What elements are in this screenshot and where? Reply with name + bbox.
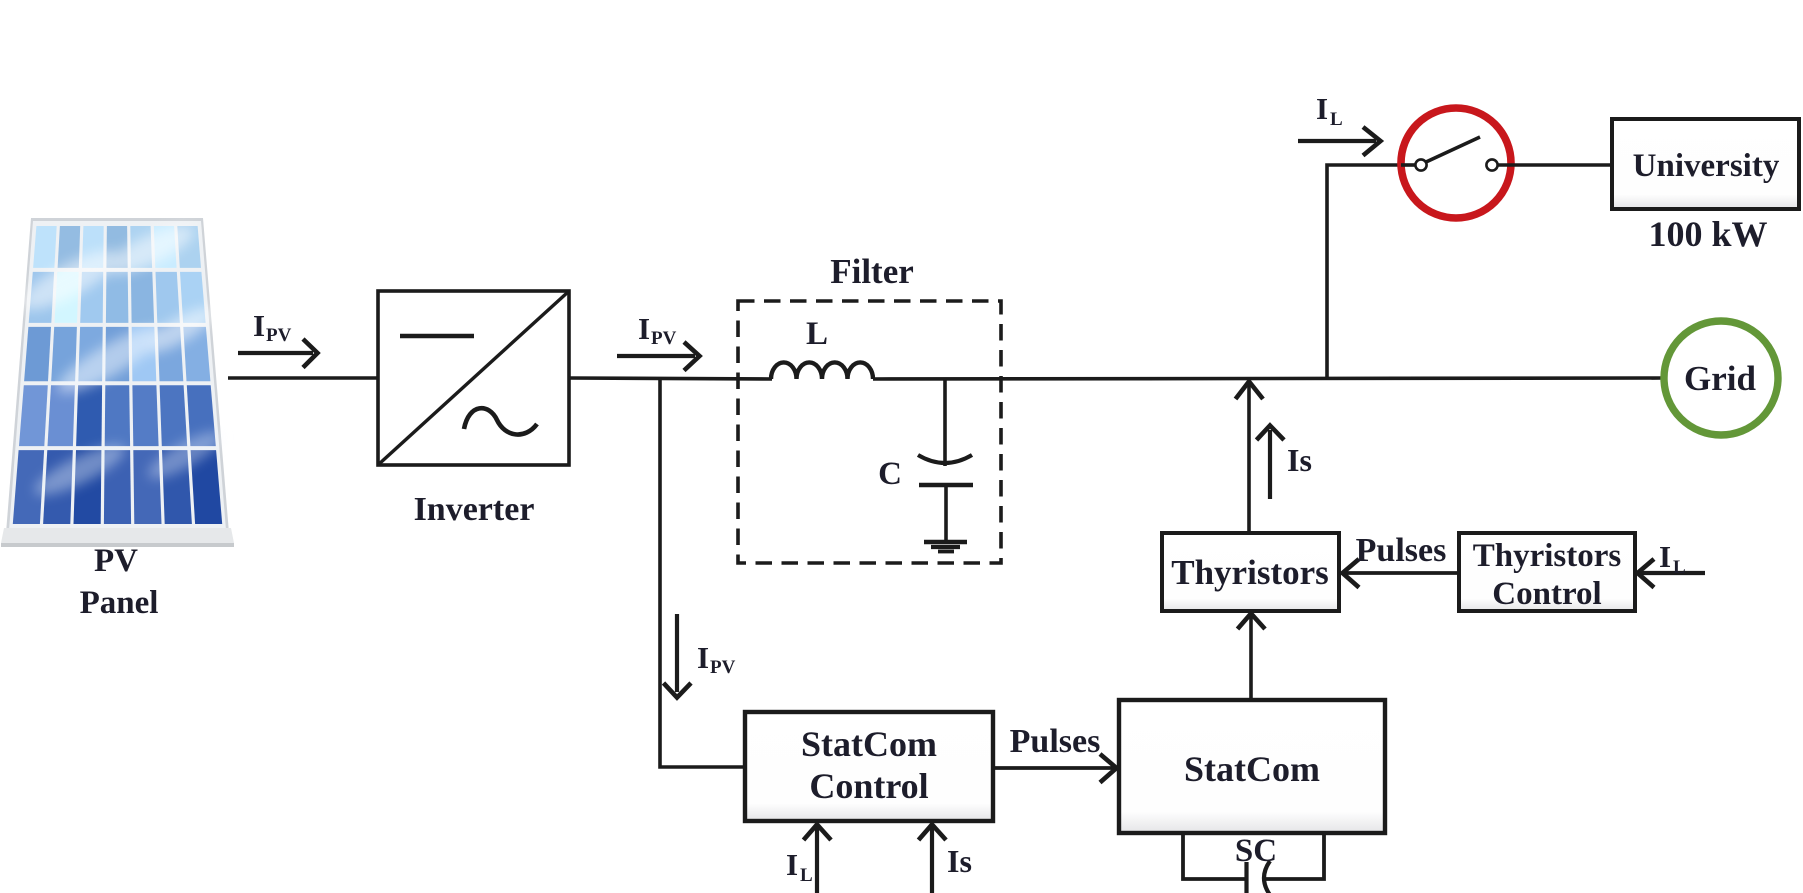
- breaker switch SW1: [1401, 108, 1612, 218]
- svg-text:I: I: [697, 640, 709, 675]
- svg-text:100 kW: 100 kW: [1648, 214, 1767, 254]
- arrow IL into thyristors control: [1638, 559, 1706, 588]
- arrow Pulses into statcom: [993, 754, 1117, 783]
- svg-text:StatCom: StatCom: [1184, 749, 1320, 789]
- svg-text:Pulses: Pulses: [1010, 723, 1101, 760]
- label IL right: [1659, 539, 1686, 578]
- arrow IL near switch: [1298, 127, 1381, 156]
- inverter U1: [378, 291, 569, 465]
- svg-text:PV: PV: [266, 325, 292, 346]
- svg-text:Inverter: Inverter: [414, 491, 535, 528]
- arrow Is label: [1257, 426, 1285, 500]
- svg-text:Control: Control: [1492, 576, 1601, 612]
- svg-text:C: C: [878, 456, 902, 492]
- svg-text:L: L: [1673, 557, 1686, 578]
- wire main bus to grid: [873, 378, 1661, 379]
- label IPV 3: [697, 640, 736, 678]
- arrow Is into statcom control: [919, 824, 947, 893]
- svg-text:University: University: [1633, 148, 1780, 184]
- svg-text:Thyristors: Thyristors: [1171, 553, 1329, 592]
- svg-text:Control: Control: [809, 766, 928, 806]
- wire branch to switch: [1327, 165, 1399, 378]
- svg-text:Pulses: Pulses: [1356, 532, 1447, 569]
- PV panel PV1: [1, 217, 234, 547]
- capacitor C: [918, 455, 973, 541]
- statcom control box: [745, 712, 993, 821]
- label IL bottom: [786, 847, 813, 886]
- arrow IPV after inverter: [617, 342, 700, 371]
- load University box: [1612, 119, 1799, 209]
- wire inverter to filter: [569, 378, 772, 379]
- wire capacitor branch: [943, 379, 947, 466]
- wire thyristors to bus with arrow Is: [1236, 381, 1264, 533]
- svg-text:L: L: [1330, 109, 1343, 130]
- svg-text:Is: Is: [947, 843, 972, 879]
- svg-text:I: I: [638, 311, 650, 346]
- arrow IPV down: [664, 614, 692, 698]
- svg-text:I: I: [1659, 539, 1671, 574]
- svg-text:PV: PV: [651, 328, 677, 349]
- svg-text:L: L: [800, 865, 813, 886]
- thyristors box: [1162, 533, 1339, 611]
- svg-text:L: L: [806, 316, 828, 352]
- svg-text:I: I: [1316, 91, 1328, 126]
- svg-text:I: I: [253, 308, 265, 343]
- wire junction down to statcom control: [660, 378, 745, 767]
- svg-text:Grid: Grid: [1684, 359, 1756, 398]
- svg-text:Is: Is: [1287, 442, 1312, 478]
- supercapacitor SC: [1183, 833, 1324, 893]
- thyristors control box: [1459, 533, 1635, 612]
- svg-text:StatCom: StatCom: [801, 724, 937, 764]
- svg-text:Thyristors: Thyristors: [1473, 538, 1622, 574]
- statcom box: [1119, 700, 1385, 833]
- svg-text:SC: SC: [1235, 833, 1277, 869]
- label PV Panel: [80, 543, 159, 621]
- svg-text:PV: PV: [710, 657, 736, 678]
- label IPV 2: [638, 311, 677, 349]
- filter dashed box: [738, 301, 1001, 563]
- wire statcom to thyristors: [1238, 613, 1266, 700]
- label IPV: [253, 308, 292, 346]
- arrow IL into statcom control: [804, 824, 832, 893]
- svg-text:Panel: Panel: [80, 585, 159, 621]
- arrow Pulses into thyristors: [1343, 559, 1460, 588]
- label IL switch: [1316, 91, 1343, 130]
- svg-text:Filter: Filter: [830, 252, 914, 291]
- svg-text:I: I: [786, 847, 798, 882]
- arrow IPV into inverter: [238, 339, 318, 368]
- ground: [924, 542, 967, 552]
- inductor L: [771, 362, 873, 379]
- wire PV panel to inverter: [228, 376, 378, 380]
- svg-text:PV: PV: [94, 543, 138, 579]
- grid G1: [1664, 321, 1778, 435]
